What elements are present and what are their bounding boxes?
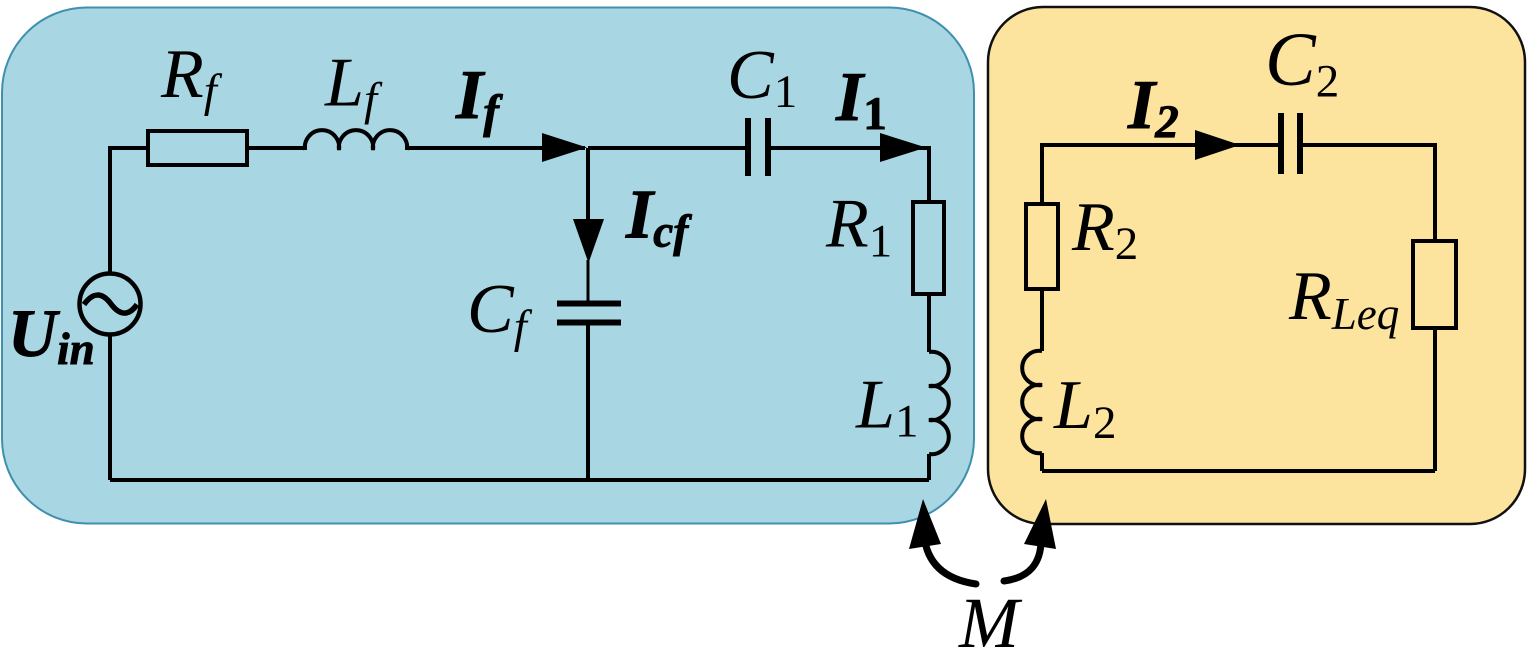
arrow If [542,133,587,162]
bottom rail circuit 2 [1042,469,1435,473]
primary-side panel (blue) [2,8,974,524]
wire: Cf to bottom rail [586,323,590,480]
capacitor C1 [748,118,768,176]
wire: C2 to corner, down to RLeq [1300,145,1435,241]
capacitor Cf [557,304,621,323]
mutual coupling arrowhead left [909,499,941,549]
arrow I2 [1195,130,1240,160]
inductor L1 [929,352,949,454]
resistor R1 [913,202,944,294]
bottom rail circuit 1 [110,478,929,482]
secondary-side panel (yellow) [988,7,1525,524]
wire: circuit2 left corner [1042,145,1281,204]
wire: C1 to corner, down to R1 [768,148,929,202]
resistor Rf [148,131,247,165]
wire: L2 to bottom rail [1040,453,1044,471]
wire: Icf arrow tip to Cf [587,260,590,304]
wire: node A to C1 [588,146,748,150]
resistor R2 [1026,204,1058,289]
svg-text:M: M [958,583,1023,661]
mutual coupling arc right [1004,538,1041,581]
wire: node A down to Icf arrow [586,148,590,222]
capacitor C2 [1281,113,1300,174]
wire: R2 to L2 [1040,289,1044,351]
arrow Icf [573,219,604,263]
mutual coupling arrowhead right [1024,499,1056,549]
wire: RLeq to bottom rail [1433,328,1437,471]
wire: source bottom to rail [108,335,112,480]
sine wave [84,295,137,313]
wire: R1 to L1 [927,294,931,352]
wire: Lf to node A [405,146,585,150]
wire: Rf to Lf [247,146,307,150]
resistor RLeq [1413,241,1456,328]
inductor Lf [305,130,407,150]
wire: L1 to bottom rail [927,454,931,480]
AC source Uin circle [80,274,141,335]
mutual coupling arc left [924,535,976,584]
inductor L2 [1022,351,1042,453]
arrow I1 [880,133,926,162]
wire: source top to Rf [110,148,148,274]
